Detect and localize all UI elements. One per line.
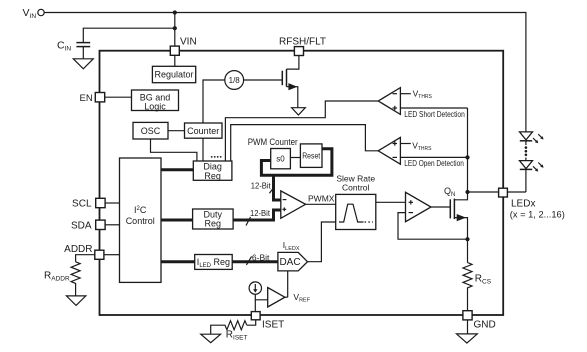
- svg-text:PWM Counter: PWM Counter: [248, 137, 298, 147]
- svg-text:CIN: CIN: [57, 40, 71, 53]
- wire SCL to I2C: [105, 202, 119, 204]
- comparator PWMX: [281, 191, 306, 218]
- block Diag Reg: [193, 161, 232, 180]
- bus PWM counter loop: [261, 149, 332, 175]
- junction QN source / feedback: [465, 237, 469, 241]
- wire EN to BG: [105, 96, 132, 98]
- bus counter to comparator minus: [274, 176, 281, 200]
- LED D2: [525, 158, 527, 161]
- wire to CIN: [83, 28, 175, 42]
- svg-text:DAC: DAC: [279, 257, 300, 268]
- block I2C Control: [120, 158, 162, 282]
- wire buffer output to VREF node: [285, 296, 288, 298]
- svg-text:QN: QN: [444, 186, 455, 198]
- wire opamp to QN gate: [431, 206, 450, 208]
- bus Duty Reg to comparator plus: [233, 210, 281, 220]
- svg-text:s0: s0: [276, 155, 285, 164]
- svg-text:PWMX: PWMX: [308, 193, 335, 203]
- svg-text:I2C: I2C: [134, 205, 147, 215]
- pin VIN: [170, 46, 179, 55]
- wire LED2 to LEDx: [525, 169, 527, 192]
- block Duty Reg: [193, 209, 234, 229]
- svg-text:RCS: RCS: [475, 273, 492, 285]
- wire QN drain to LEDx pin: [468, 191, 499, 193]
- wire RISET to ground: [211, 325, 222, 334]
- svg-text:12-Bit: 12-Bit: [251, 181, 272, 191]
- svg-text:VTHRS: VTHRS: [412, 141, 432, 153]
- wire LED1 to dots: [525, 141, 527, 145]
- svg-text:RADDR: RADDR: [44, 271, 70, 283]
- wire current source to ISET pin: [254, 300, 256, 312]
- wire VIN pin to Regulator: [174, 55, 176, 66]
- resistor RCS: [467, 239, 469, 262]
- divider 1/8: [225, 71, 244, 90]
- wire LED string to LEDx pin: [507, 191, 526, 193]
- ground (RFSH transistor): [292, 108, 306, 115]
- svg-text:OSC: OSC: [141, 126, 161, 136]
- svg-text:Counter: Counter: [187, 126, 219, 136]
- bus I2C to ILED Reg: [161, 260, 195, 263]
- ground (CIN): [73, 59, 93, 69]
- svg-text:Control: Control: [342, 183, 370, 193]
- wire LED open detection output to Diag Reg: [231, 125, 378, 161]
- resistor RISET: [222, 321, 247, 330]
- wire LED short detection output to Diag Reg: [225, 101, 378, 161]
- junction QN drain / LEDx: [465, 190, 469, 194]
- svg-text:LEDx: LEDx: [511, 198, 535, 209]
- comparator LED short detection: [378, 88, 400, 115]
- bus I2C to Diag Reg: [161, 168, 193, 171]
- bus I2C to Duty Reg: [161, 219, 193, 222]
- wire ISET to RISET: [247, 320, 256, 325]
- chip boundary box: [100, 51, 504, 315]
- current source ISET: [249, 282, 261, 294]
- wire 1/8 to Counter: [203, 80, 225, 123]
- svg-text:ILEDX: ILEDX: [283, 240, 300, 252]
- block s0: [271, 149, 291, 169]
- block Counter: [185, 123, 223, 138]
- svg-text:(x = 1, 2...16): (x = 1, 2...16): [510, 210, 565, 220]
- block OSC: [133, 122, 168, 139]
- svg-text:VTHRS: VTHRS: [413, 88, 433, 100]
- svg-text:Regulator: Regulator: [154, 70, 193, 80]
- pin SCL: [96, 198, 105, 207]
- bus ILED Reg to DAC: [232, 260, 278, 263]
- svg-text:VREF: VREF: [293, 292, 310, 304]
- wire ADDR to RADDR: [76, 255, 95, 262]
- bus marker 6-Bit: [246, 256, 251, 265]
- svg-text:Reg: Reg: [204, 171, 221, 181]
- block Regulator: [152, 66, 195, 82]
- op-amp VREF buffer: [268, 288, 285, 308]
- junction CIN branch: [173, 26, 177, 30]
- wire VIN rail top: [44, 13, 526, 132]
- block BG and Logic: [132, 90, 179, 111]
- wire DAC to Slew Rate Control: [308, 222, 336, 262]
- svg-text:GND: GND: [474, 320, 496, 331]
- svg-text:Reset: Reset: [302, 152, 321, 161]
- block Slew Rate Control: [336, 194, 376, 229]
- svg-text:RFSH/FLT: RFSH/FLT: [279, 37, 326, 48]
- wire s0 to Reset: [290, 157, 300, 159]
- LED D1: [520, 132, 533, 140]
- block Reset: [300, 144, 322, 168]
- wire short det plus input to sense: [400, 107, 467, 109]
- svg-text:Reg: Reg: [205, 219, 222, 229]
- svg-text:EN: EN: [80, 93, 93, 104]
- bus marker 12-Bit top: [269, 187, 274, 194]
- svg-text:Logic: Logic: [144, 101, 166, 111]
- pin SDA: [96, 220, 105, 229]
- junction sense / open detection: [465, 155, 469, 159]
- wire GND pin to ground: [467, 320, 469, 334]
- comparator LED open detection: [378, 137, 400, 164]
- pin LEDx: [499, 188, 508, 197]
- ground (RISET): [201, 334, 221, 343]
- ground (RADDR): [66, 296, 85, 306]
- svg-text:ADDR: ADDR: [64, 244, 92, 255]
- wire Slew Rate Control to opamp: [376, 201, 406, 203]
- svg-text:ISET: ISET: [262, 319, 284, 330]
- wire Counter to Diag Reg: [202, 138, 204, 161]
- pin ADDR: [95, 250, 104, 259]
- wire OSC to Counter: [168, 130, 185, 132]
- svg-text:1/8: 1/8: [229, 76, 241, 85]
- svg-text:RISET: RISET: [226, 330, 248, 342]
- svg-text:LED Open Detection: LED Open Detection: [404, 159, 464, 168]
- svg-text:VIN: VIN: [23, 7, 37, 20]
- node LED string ellipsis: [525, 146, 528, 149]
- svg-text:Control: Control: [126, 216, 155, 226]
- wire CIN to ground: [82, 47, 84, 59]
- wire RCS to GND pin: [467, 291, 469, 311]
- op-amp output stage: [406, 192, 432, 221]
- wire 1/8 to gate: [244, 79, 283, 81]
- wire PWMX to Slew Rate Control: [306, 203, 336, 205]
- pin EN: [95, 93, 104, 102]
- capacitor CIN: [76, 42, 90, 44]
- ground (GND): [457, 334, 478, 343]
- node VIN terminal: [38, 9, 44, 15]
- transistor RFSH (fault pulldown): [281, 71, 283, 86]
- wire open det minus input to sense: [400, 156, 467, 158]
- pin GND: [463, 311, 472, 320]
- wire rail to VIN pin: [174, 13, 176, 47]
- block ILED Reg: [195, 255, 233, 270]
- bus marker 12-Bit bottom: [246, 217, 251, 226]
- wire opamp feedback: [398, 213, 468, 240]
- pin RFSH/FLT: [294, 47, 303, 56]
- svg-text:6-Bit: 6-Bit: [252, 252, 270, 262]
- wire VTH stub (short det): [400, 93, 410, 95]
- wire SDA to I2C: [105, 224, 119, 226]
- wire VTH stub (open det): [400, 143, 410, 145]
- wire current source to buffer: [255, 294, 267, 300]
- svg-text:SDA: SDA: [71, 221, 92, 232]
- block DAC: [278, 252, 308, 271]
- wire sense line up to comparators: [467, 108, 469, 192]
- junction rail/VIN-pin: [173, 10, 177, 14]
- svg-text:VIN: VIN: [180, 36, 197, 47]
- node ellipsis above Diag Reg: [211, 156, 213, 158]
- svg-text:SCL: SCL: [72, 199, 92, 210]
- pin ISET: [251, 312, 260, 320]
- wire OSC to Diag Reg: [151, 139, 197, 161]
- svg-text:LED Short Detection: LED Short Detection: [404, 110, 465, 119]
- wire DAC bottom to VREF node: [287, 271, 289, 297]
- resistor RADDR: [71, 262, 80, 285]
- svg-text:12-Bit: 12-Bit: [250, 208, 271, 218]
- wire RADDR to ground: [75, 285, 77, 296]
- wire ADDR to I2C: [104, 254, 120, 256]
